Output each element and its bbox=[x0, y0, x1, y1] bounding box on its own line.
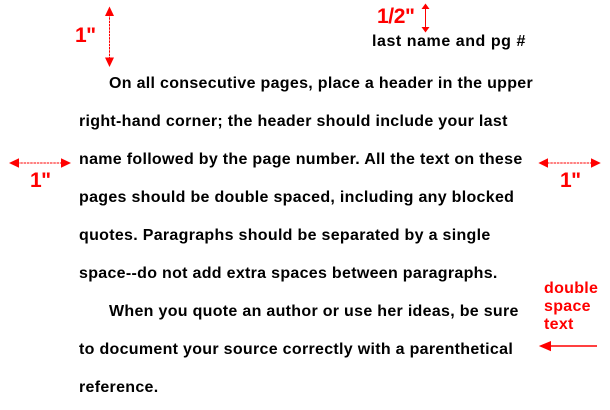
body line 7 bbox=[109, 304, 519, 320]
arrow: left margin horizontal double-headed bbox=[9, 158, 71, 168]
body line 6 bbox=[79, 266, 498, 282]
body line 4 bbox=[79, 190, 514, 206]
label: double space text (red annotation) bbox=[544, 280, 598, 334]
body line 1 bbox=[109, 76, 533, 92]
label: left margin "1 inch" bbox=[30, 170, 51, 191]
body line 2 bbox=[79, 114, 508, 130]
arrow: header half-inch vertical double-headed bbox=[422, 4, 430, 33]
arrow: top margin vertical double-headed bbox=[105, 7, 114, 68]
body line 9 bbox=[79, 380, 159, 396]
label: top margin dimension text "1 inch" bbox=[75, 25, 96, 46]
body line 8 bbox=[79, 342, 513, 358]
label: header top margin "1/2 inch" bbox=[377, 6, 415, 27]
arrow: right margin horizontal double-headed bbox=[538, 158, 600, 168]
arrow: double-space pointer (left-pointing) bbox=[539, 341, 597, 351]
header text: last name and pg # bbox=[372, 34, 526, 50]
label: right margin "1 inch" bbox=[560, 170, 581, 191]
body line 3 bbox=[79, 152, 523, 168]
body line 5 bbox=[79, 228, 491, 244]
